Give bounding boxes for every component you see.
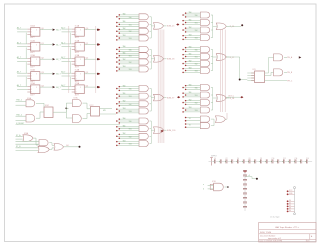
svg-text:TA0: TA0 [189,11,192,14]
svg-text:4077: 4077 [75,52,79,54]
svg-text:4077: 4077 [75,95,79,97]
svg-text:TA2: TA2 [189,98,192,101]
svg-text:C14: C14 [295,158,298,160]
svg-text:b: b [203,189,204,191]
svg-text:TA1: TA1 [123,52,126,55]
svg-text:Q2: Q2 [41,58,44,60]
svg-text:TA0: TA0 [189,45,192,48]
svg-text:C2: C2 [226,158,228,160]
svg-text:TA0: TA0 [123,117,126,120]
svg-text:TB1: TB1 [195,23,198,25]
svg-text:PH_A: PH_A [287,56,293,59]
svg-text:TB1: TB1 [129,24,132,26]
svg-text:SUM_130: SUM_130 [167,130,175,132]
svg-text:IC2A: IC2A [75,39,80,42]
svg-text:IC3A: IC3A [75,54,80,57]
svg-text:TB1: TB1 [129,96,132,98]
svg-text:Q4: Q4 [86,85,89,87]
svg-text:4077: 4077 [30,95,34,97]
svg-text:PH_C: PH_C [287,80,293,82]
svg-text:TB1: TB1 [195,95,198,97]
svg-text:TB3: TB3 [129,69,132,71]
svg-text:1/1: 1/1 [307,241,310,243]
svg-text:SUM_58: SUM_58 [167,59,174,61]
svg-text:TB2: TB2 [129,136,132,138]
svg-text:TA1: TA1 [123,20,126,23]
svg-text:TB3: TB3 [195,110,198,112]
svg-text:LAB Tape Reader <TTL>: LAB Tape Reader <TTL> [275,226,300,229]
svg-text:Q1: Q1 [41,43,44,45]
svg-text:TA0: TA0 [189,83,192,86]
svg-text:TA1: TA1 [189,52,192,55]
svg-text:TB1: TB1 [129,129,132,131]
svg-text:R_98: R_98 [230,98,235,100]
svg-text:TA2: TA2 [189,59,192,62]
svg-text:Q2: Q2 [86,58,89,60]
svg-text:TA0: TA0 [123,13,126,16]
svg-text:TA2: TA2 [123,27,126,30]
svg-text:D1: D1 [289,203,291,205]
svg-text:IC7C: IC7C [90,105,95,107]
svg-text:tape-reader v0.2: tape-reader v0.2 [268,237,281,240]
svg-text:TB0: TB0 [129,49,132,51]
svg-text:TRK_2: TRK_2 [16,115,22,117]
svg-text:C8: C8 [260,158,262,160]
svg-text:TB0: TB0 [129,89,132,91]
svg-text:TB3: TB3 [129,111,132,113]
svg-text:IC2A: IC2A [30,39,35,42]
svg-text:TB3: TB3 [129,144,132,146]
svg-text:TB0: TB0 [195,15,198,17]
svg-text:SUM_97: SUM_97 [167,97,174,99]
svg-text:IC1A: IC1A [75,25,80,28]
svg-text:D3: D3 [289,208,291,210]
svg-text:D0: D0 [289,200,291,202]
svg-text:TA3: TA3 [123,65,126,68]
svg-text:OUT_C: OUT_C [228,95,235,97]
svg-text:TA0: TA0 [123,84,126,87]
svg-text:TA3: TA3 [123,34,126,37]
svg-text:IC4A: IC4A [75,69,80,72]
svg-text:N_RESET: N_RESET [16,123,25,125]
svg-text:a: a [203,184,204,186]
svg-text:Q0: Q0 [41,28,44,30]
svg-text:Date: 1/17/2005 3:08:47 PM: Date: 1/17/2005 3:08:47 PM [260,240,283,243]
svg-text:4077: 4077 [75,67,79,69]
svg-text:TB0: TB0 [129,121,132,123]
svg-text:C6: C6 [249,158,251,160]
svg-text:rev 0.2 tape: rev 0.2 tape [270,216,280,219]
svg-text:TB2: TB2 [195,30,198,32]
svg-text:C4: C4 [237,158,239,160]
svg-text:TB0: TB0 [129,17,132,19]
svg-text:D4: D4 [289,210,291,212]
svg-text:TA2: TA2 [189,26,192,29]
svg-text:TB3: TB3 [195,38,198,40]
svg-text:4077: 4077 [30,37,34,39]
svg-text:Q0: Q0 [86,28,89,30]
svg-text:TA1: TA1 [189,18,192,21]
svg-text:Q4: Q4 [41,85,44,87]
svg-text:TA1: TA1 [123,125,126,128]
svg-text:D2: D2 [289,205,291,207]
svg-text:IC4A: IC4A [30,69,35,72]
svg-text:TB1: TB1 [195,57,198,59]
svg-text:IC6C: IC6C [45,105,50,107]
svg-text:TA0: TA0 [123,45,126,48]
svg-text:TB2: TB2 [195,64,198,66]
svg-text:+5: +5 [248,175,250,177]
svg-text:4077: 4077 [75,37,79,39]
svg-text:IC3A: IC3A [30,54,35,57]
svg-text:Q3: Q3 [86,72,89,74]
svg-text:TA3: TA3 [189,66,192,69]
svg-text:TA3: TA3 [189,106,192,109]
svg-text:TA3: TA3 [189,33,192,36]
svg-text:TB2: TB2 [129,104,132,106]
svg-text:TB3: TB3 [195,71,198,73]
svg-text:TB2: TB2 [129,62,132,64]
svg-text:C10: C10 [272,158,275,160]
svg-text:IC10: IC10 [212,181,216,183]
svg-text:TB2: TB2 [195,103,198,105]
svg-text:C12: C12 [283,158,286,160]
svg-text:PH_B: PH_B [287,72,293,74]
svg-text:TB0: TB0 [195,50,198,52]
svg-text:TB1: TB1 [129,56,132,58]
svg-text:C16: C16 [306,158,309,160]
svg-text:TB3: TB3 [129,38,132,40]
svg-text:TB2: TB2 [129,31,132,33]
svg-text:4077: 4077 [30,67,34,69]
svg-text:TA2: TA2 [123,100,126,103]
svg-text:Q3: Q3 [41,72,44,74]
svg-text:TA2: TA2 [123,58,126,61]
svg-text:IC5A: IC5A [75,82,80,85]
svg-text:Q1: Q1 [86,43,89,45]
svg-text:TA3: TA3 [123,139,126,142]
svg-text:C0: C0 [214,158,216,160]
svg-text:TRK_1: TRK_1 [16,100,22,102]
svg-text:SUPPLY: SUPPLY [211,156,217,158]
svg-text:TA1: TA1 [123,92,126,95]
svg-text:TA2: TA2 [123,132,126,135]
svg-text:TA3: TA3 [123,107,126,110]
svg-text:FH10, TO&M: FH10, TO&M [260,232,271,234]
svg-text:TA1: TA1 [189,91,192,94]
svg-text:IC5A: IC5A [30,82,35,85]
svg-text:IC1A: IC1A [30,25,35,28]
svg-text:4077: 4077 [30,52,34,54]
svg-text:SUM_25: SUM_25 [167,26,174,28]
svg-text:TB0: TB0 [195,88,198,90]
